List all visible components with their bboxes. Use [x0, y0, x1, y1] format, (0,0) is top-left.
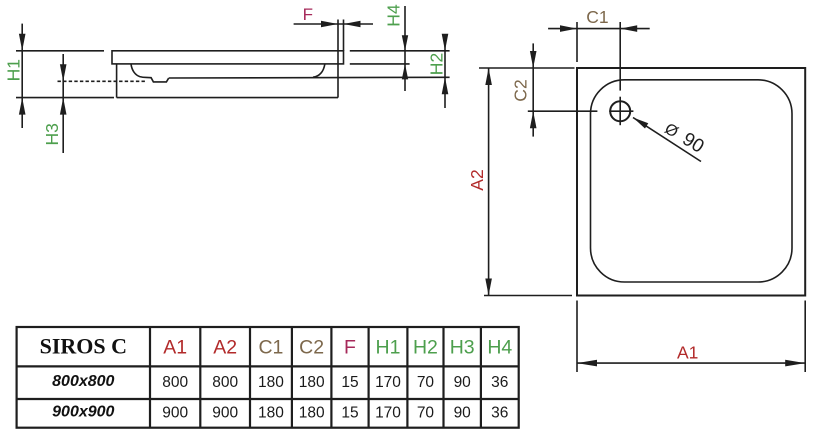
- label C2: [511, 79, 531, 101]
- svg-text:70: 70: [417, 374, 435, 391]
- dimension C1 line: [548, 28, 650, 30]
- dimension F extension line (flange right edge): [343, 20, 345, 51]
- drain centerline vertical tick: [619, 97, 621, 126]
- svg-text:H4: H4: [384, 4, 404, 27]
- table grid: [17, 327, 519, 428]
- drain hole circle: [610, 101, 630, 121]
- dimension A1 right extension line: [804, 301, 806, 373]
- table header row: [40, 334, 513, 359]
- svg-text:15: 15: [341, 405, 358, 422]
- label diameter 90: [661, 118, 708, 158]
- svg-text:800x800: 800x800: [52, 373, 114, 390]
- svg-text:H2: H2: [427, 53, 447, 75]
- svg-text:900x900: 900x900: [52, 404, 114, 421]
- top view: outer square outline: [577, 68, 805, 296]
- table row 900x900: [52, 404, 508, 422]
- dimension F arrow right-pointing: [321, 21, 338, 28]
- label H3: [42, 123, 62, 145]
- dimension H2 line: [444, 37, 446, 108]
- dimension H2 arrow up: [442, 77, 449, 94]
- dimension H3 arrow up: [60, 98, 67, 115]
- label H2: [427, 53, 447, 75]
- tray side view: body right edge (extends up as F extension line): [337, 20, 339, 98]
- dimension C2 arrow down: [530, 51, 537, 68]
- tray side view: body bottom edge: [117, 97, 338, 99]
- dimension F arrow left-pointing: [344, 21, 361, 28]
- tray side view: body left edge: [116, 64, 118, 98]
- drain leader arrowhead: [633, 118, 648, 129]
- dimension H2 arrow down: [442, 34, 449, 51]
- dimension F line: [294, 23, 373, 25]
- svg-text:A2: A2: [467, 169, 487, 190]
- svg-text:90: 90: [454, 405, 472, 422]
- flange bottom extension line (for H4): [350, 63, 410, 65]
- dimension A2 arrow up: [485, 68, 492, 85]
- flange top extension line (for H4/H2): [350, 50, 450, 52]
- svg-text:180: 180: [299, 374, 325, 391]
- svg-text:H3: H3: [450, 337, 475, 359]
- svg-text:H2: H2: [413, 337, 438, 359]
- dimension C2 arrow up: [530, 111, 537, 128]
- dimension H4 arrow down: [402, 35, 408, 51]
- label H4: [384, 4, 404, 27]
- svg-text:A1: A1: [163, 337, 187, 359]
- dimension C2 drain extension line: [528, 110, 598, 112]
- top view: inner rounded basin outline: [591, 80, 793, 282]
- svg-text:180: 180: [258, 374, 284, 391]
- dimension H4 arrow up: [402, 64, 408, 80]
- dimension A1 line: [577, 362, 805, 364]
- dimension C1 arrow right-pointing: [560, 25, 577, 32]
- dimension H1 line: [21, 24, 23, 128]
- hidden drain level dashed line: [58, 80, 147, 82]
- svg-text:C1: C1: [258, 337, 283, 359]
- label H1: [3, 59, 23, 81]
- dimension C1 arrow left-pointing: [620, 25, 637, 32]
- svg-text:36: 36: [491, 405, 508, 422]
- svg-text:F: F: [303, 5, 313, 24]
- svg-text:C1: C1: [586, 7, 608, 27]
- svg-text:170: 170: [375, 374, 401, 391]
- svg-text:F: F: [344, 337, 356, 359]
- svg-text:800: 800: [162, 374, 188, 391]
- svg-text:800: 800: [212, 374, 238, 391]
- dimension A2 line: [488, 68, 490, 296]
- svg-text:900: 900: [162, 405, 188, 422]
- svg-text:70: 70: [417, 405, 435, 422]
- svg-text:H3: H3: [42, 123, 62, 145]
- dimension H4 line: [404, 6, 406, 91]
- svg-text:15: 15: [341, 374, 358, 391]
- drain centerline horizontal tick: [609, 110, 633, 112]
- dimension A1 arrow left-pointing: [577, 360, 597, 367]
- dimension C2 top extension line (square top extended left): [479, 67, 575, 69]
- dimension A1 left extension line: [576, 301, 578, 373]
- label A2: [467, 169, 487, 190]
- svg-text:90: 90: [454, 374, 472, 391]
- label F: [303, 5, 313, 24]
- label C1: [586, 7, 608, 27]
- svg-text:H1: H1: [3, 59, 23, 81]
- tray side view: interior right wall curve: [313, 64, 325, 77]
- dimension H1 bottom extension line: [16, 97, 114, 99]
- svg-text:900: 900: [212, 405, 238, 422]
- svg-text:H1: H1: [376, 337, 401, 359]
- dimension H1 top extension line: [16, 50, 104, 52]
- dimension C1 right extension line (drain centerline): [619, 22, 621, 91]
- tray side view: interior floor line extending right as H2 extension line: [169, 76, 450, 79]
- svg-text:C2: C2: [511, 79, 531, 101]
- svg-text:170: 170: [375, 405, 401, 422]
- dimension C2 line: [532, 43, 534, 136]
- tray side view: flange (top lip) outline: [112, 51, 344, 64]
- tray side view: interior basin left wall curve and drain recess: [131, 64, 169, 82]
- dimension H1 arrow up: [19, 98, 26, 115]
- svg-text:C2: C2: [299, 337, 324, 359]
- svg-text:A1: A1: [677, 343, 698, 363]
- dimension C1 left extension line: [576, 22, 578, 62]
- dimension H3 arrow down: [60, 64, 67, 81]
- table row 800x800: [52, 373, 508, 391]
- dimension A2 arrow down: [485, 279, 492, 296]
- dimension H3 line: [62, 54, 64, 153]
- svg-text:A2: A2: [213, 337, 237, 359]
- svg-text:180: 180: [258, 405, 284, 422]
- label A1: [677, 343, 698, 363]
- dimension A1 arrow right-pointing: [785, 360, 805, 367]
- dimension H1 arrow down: [19, 34, 26, 51]
- drain leader line: [633, 118, 701, 162]
- dimension A2 bottom extension line: [484, 295, 572, 297]
- svg-text:SIROS C: SIROS C: [40, 334, 127, 359]
- svg-text:180: 180: [299, 405, 325, 422]
- svg-text:36: 36: [491, 374, 508, 391]
- svg-text:H4: H4: [487, 337, 512, 359]
